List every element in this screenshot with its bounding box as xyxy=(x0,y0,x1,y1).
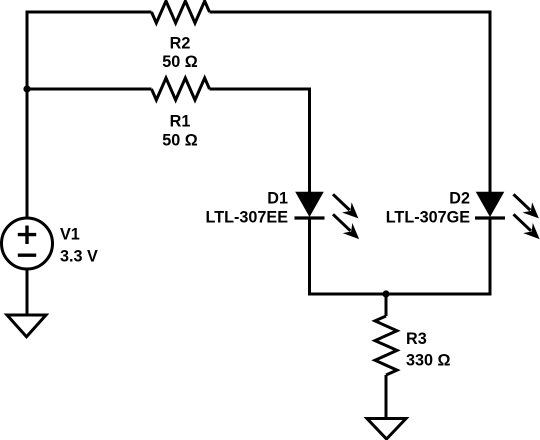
svg-text:V1: V1 xyxy=(60,226,80,244)
svg-text:LTL-307GE: LTL-307GE xyxy=(386,208,470,226)
svg-text:50 Ω: 50 Ω xyxy=(162,132,198,150)
voltage source V1 xyxy=(2,218,53,269)
svg-text:R1: R1 xyxy=(170,112,191,130)
svg-text:R2: R2 xyxy=(170,34,191,52)
wire left rail and top-left segment xyxy=(27,12,152,218)
svg-text:D1: D1 xyxy=(267,189,288,207)
LED D1 xyxy=(295,189,364,244)
svg-text:R3: R3 xyxy=(406,330,427,348)
svg-text:D2: D2 xyxy=(449,189,470,207)
resistor R2 xyxy=(152,1,210,23)
wire top segment to right rail xyxy=(210,12,491,193)
resistor R3 xyxy=(375,316,397,375)
svg-text:50 Ω: 50 Ω xyxy=(162,53,198,71)
svg-text:3.3 V: 3.3 V xyxy=(60,248,98,266)
wire R3 to ground xyxy=(385,375,388,419)
wire R1 to D1 branch xyxy=(210,89,310,193)
ground GND2 xyxy=(367,419,406,440)
LED D2 xyxy=(475,189,540,244)
svg-text:330 Ω: 330 Ω xyxy=(406,351,451,369)
resistor R1 xyxy=(152,78,210,100)
wire node B to R3 xyxy=(385,294,388,316)
svg-text:LTL-307EE: LTL-307EE xyxy=(206,208,289,226)
wire D1 and D2 to bottom rail xyxy=(310,218,491,294)
node B junction dot xyxy=(382,290,389,297)
node A junction dot xyxy=(23,85,30,92)
ground GND1 xyxy=(7,315,46,337)
wire node A to R1 xyxy=(27,88,152,91)
wire V1 to ground xyxy=(26,269,29,315)
